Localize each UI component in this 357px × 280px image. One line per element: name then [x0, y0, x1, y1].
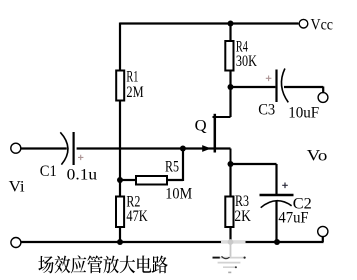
svg-text:Vo: Vo: [307, 148, 328, 165]
caption 场效应管放大电路: [38, 255, 167, 273]
svg-text:10M: 10M: [165, 186, 192, 203]
ground bar 3: [223, 266, 236, 268]
svg-text:2M: 2M: [126, 84, 143, 101]
wire drain node to C3: [231, 86, 276, 88]
wire R3 bottom lead: [229, 228, 231, 243]
capacitor C2: [260, 195, 294, 208]
junction node gate / R5: [180, 146, 186, 152]
terminal Vo output: [318, 226, 328, 236]
capacitor C3: [277, 69, 289, 103]
svg-text:R5: R5: [165, 158, 179, 175]
svg-text:47uF: 47uF: [278, 210, 308, 227]
capacitor C1: [60, 132, 73, 165]
transistor Q channel bar: [214, 114, 217, 153]
terminal Vi input top: [11, 143, 21, 153]
resistor R1: [116, 71, 124, 101]
capacitor C2 plus: [282, 183, 288, 189]
svg-text:0.1u: 0.1u: [67, 167, 97, 184]
wire Vi input to C1: [21, 147, 67, 149]
junction node source / R3 / C2: [228, 161, 234, 167]
svg-text:30K: 30K: [236, 53, 257, 70]
transistor Q drain tick: [213, 116, 231, 118]
svg-text:R1: R1: [126, 68, 138, 85]
resistor R5: [136, 176, 167, 185]
ground bar 1: [213, 257, 246, 259]
wire R4 bottom lead: [229, 72, 231, 89]
wire R4 top lead: [229, 23, 231, 41]
junction node top rail / R4: [228, 21, 234, 27]
svg-text:Q: Q: [195, 118, 207, 135]
ground bar 3 right dot: [235, 266, 237, 268]
wire Vo terminal drop: [322, 236, 324, 242]
ground bar 1 black accent left: [213, 257, 220, 259]
junction node R4 / drain / C3: [228, 84, 234, 90]
wire drain vertical: [229, 87, 231, 117]
svg-text:Vi: Vi: [9, 179, 26, 196]
svg-text:Vcc: Vcc: [311, 17, 334, 34]
capacitor C1 plus: [78, 155, 83, 160]
wire R5 right lead: [168, 148, 183, 181]
wire source to R3: [229, 164, 231, 196]
wire bottom rail: [21, 241, 324, 243]
svg-text:10uF: 10uF: [288, 105, 319, 122]
terminal Vcc: [299, 19, 308, 28]
ground rail gray overlay: [221, 241, 246, 243]
terminal C3 output: [318, 93, 328, 103]
ground bar 2: [218, 262, 241, 264]
resistor R4: [225, 41, 233, 71]
transistor Q gate arrow: [202, 145, 211, 152]
transistor Q source corner: [230, 149, 232, 165]
wire C2 bottom lead: [275, 201, 277, 242]
ground stub: [230, 243, 232, 257]
ground bar 1 right dot: [244, 257, 246, 259]
wire source node to C2: [231, 164, 277, 194]
wire R5 left lead: [120, 179, 136, 181]
terminal input bottom: [11, 238, 21, 248]
ground bar 1 dark hook: [222, 256, 230, 258]
resistor R3: [225, 197, 233, 228]
wire R1 column upper: [119, 23, 121, 70]
svg-text:47K: 47K: [126, 208, 148, 225]
junction node C2 / bottom rail: [274, 239, 280, 245]
resistor R2: [116, 197, 124, 228]
wire R1-to-R2 column (gate node): [119, 102, 121, 197]
svg-text:C3: C3: [258, 101, 275, 118]
wire C3 to output terminal: [284, 87, 323, 93]
svg-text:2K: 2K: [234, 208, 251, 225]
ground gray junction dot: [228, 239, 234, 245]
svg-text:C1: C1: [40, 163, 57, 180]
wire C1 to gate / source line: [77, 147, 231, 149]
wire top rail Vcc: [120, 22, 299, 24]
capacitor C3 plus: [266, 76, 272, 82]
junction node R2 / bottom rail: [117, 239, 123, 245]
junction node R1 / R2 / R5: [117, 177, 123, 183]
ground lowest mark: [228, 271, 231, 273]
wire R2 bottom lead: [119, 228, 121, 243]
